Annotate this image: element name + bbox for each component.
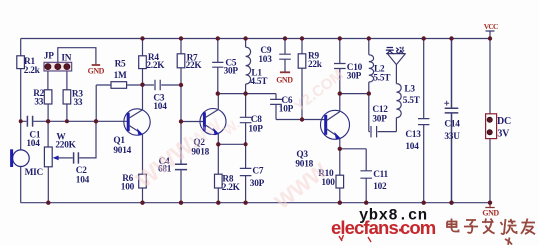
capacitor C12 [369, 126, 397, 137]
transistor Q1 [124, 109, 150, 135]
potentiometer W [44, 147, 52, 167]
svg-text:9014: 9014 [113, 146, 131, 156]
svg-text:22k: 22k [308, 60, 323, 70]
wire R2 bottom to base row [47, 104, 49, 147]
svg-text:33: 33 [74, 98, 83, 108]
capacitor C4 [175, 164, 187, 169]
capacitor C14 electrolytic [445, 39, 459, 203]
svg-text:22K: 22K [186, 61, 203, 71]
svg-text:C7: C7 [252, 166, 263, 176]
transistor Q2 [200, 109, 226, 135]
svg-text:Q3: Q3 [296, 150, 308, 160]
svg-text:R5: R5 [115, 59, 126, 69]
resistor R5 [111, 82, 127, 89]
capacitor C10 [334, 39, 346, 94]
svg-text:MIC: MIC [25, 168, 43, 178]
antenna [387, 54, 406, 65]
svg-text:10P: 10P [248, 124, 263, 134]
svg-text:2.2K: 2.2K [146, 61, 165, 71]
wire Q3 base row [276, 119, 326, 121]
ground bar JP [92, 64, 100, 66]
svg-text:VCC: VCC [484, 22, 498, 31]
svg-text:L3: L3 [404, 84, 415, 94]
svg-text:Y2.COM: Y2.COM [291, 66, 347, 115]
capacitor C5 [212, 39, 223, 94]
svg-text:W.: W. [220, 116, 243, 139]
resistor R2 [44, 90, 52, 104]
capacitor C13 [418, 39, 429, 203]
wire JP pin1 to R2 [47, 67, 49, 90]
wire Q2 base [181, 121, 204, 123]
svg-text:GND: GND [88, 67, 105, 76]
glyph 电 [447, 219, 459, 232]
capacitor C2 [74, 152, 79, 163]
svg-text:10P: 10P [279, 105, 294, 115]
capacitor C11 [360, 149, 372, 203]
svg-text:104: 104 [26, 139, 40, 149]
capacitor C9 [279, 39, 291, 72]
resistor R4 [142, 39, 144, 56]
svg-text:5.5T: 5.5T [373, 73, 391, 83]
resistor R6 [139, 174, 147, 188]
svg-text:100: 100 [121, 183, 135, 193]
svg-text:C14: C14 [444, 119, 460, 129]
svg-text:33: 33 [34, 97, 43, 107]
svg-text:Q1: Q1 [113, 136, 125, 146]
svg-text:IN: IN [61, 53, 71, 63]
svg-text:102: 102 [373, 182, 387, 192]
connector JP/IN [44, 62, 72, 71]
svg-text:104: 104 [153, 102, 167, 112]
svg-text:2.2K: 2.2K [222, 183, 241, 193]
svg-text:C13: C13 [405, 130, 421, 140]
label antenna 天线 [386, 47, 404, 54]
ground bar C9 [280, 71, 290, 73]
watermark marks [339, 235, 371, 242]
svg-text:220K: 220K [55, 140, 76, 150]
svg-text:1M: 1M [114, 71, 127, 81]
svg-text:elecfans.com: elecfans.com [331, 214, 436, 238]
svg-text:104: 104 [76, 175, 90, 185]
svg-text:30P: 30P [224, 66, 239, 76]
pot wiper arrow [58, 157, 73, 159]
wire collector node row [218, 93, 276, 95]
wire Q3 collector [339, 94, 341, 112]
wire Q2 emitter row to C7 [218, 143, 245, 145]
svg-text:2.2k: 2.2k [24, 66, 41, 76]
microphone MIC [13, 150, 30, 167]
wire bottom rail [21, 202, 490, 204]
svg-text:33U: 33U [444, 132, 460, 142]
inductor L1 [246, 39, 251, 94]
svg-text:DC: DC [497, 116, 511, 127]
svg-text:GND: GND [482, 209, 499, 218]
capacitor C3 [143, 80, 182, 90]
wire Q2 collector [217, 94, 219, 109]
wire R3 bottom to base row [66, 104, 68, 121]
watermark 电子发烧友 [447, 219, 535, 245]
wire Q3 emitter row to C11 [340, 148, 366, 150]
wire Q1 collector [142, 85, 144, 110]
svg-text:30P: 30P [372, 114, 387, 124]
resistor R8 [215, 174, 223, 188]
glyph 烧 [501, 219, 517, 234]
capacitor C7 [240, 144, 252, 202]
resistor R9 [301, 39, 303, 54]
VCC stub [486, 31, 495, 39]
svg-text:103: 103 [258, 55, 272, 65]
glyph 友 [505, 219, 535, 245]
glyph 子 [464, 220, 478, 233]
watermark pink diagonal [131, 66, 347, 214]
resistor R3 [63, 90, 71, 104]
svg-text:GND: GND [276, 75, 293, 84]
svg-text:3V: 3V [497, 129, 510, 140]
glyph 发 [482, 219, 495, 234]
connector DC [486, 114, 497, 139]
svg-text:C11: C11 [373, 170, 388, 180]
wire Q3 emitter [339, 139, 341, 149]
capacitor C6 [270, 94, 282, 120]
ground bottom right [485, 203, 494, 208]
inductor L3 [396, 65, 401, 132]
capacitor C1 [27, 116, 32, 127]
svg-text:104: 104 [405, 142, 419, 152]
wire left vertical [20, 39, 22, 203]
svg-text:30P: 30P [347, 71, 362, 81]
resistor R10 [339, 149, 341, 175]
svg-text:5.5T: 5.5T [403, 96, 421, 106]
wire Q3 collector row to L2 [340, 93, 369, 95]
wire base row with C1 [21, 120, 128, 122]
svg-text:JP: JP [44, 51, 54, 61]
wire Q2 emitter to R8 [217, 134, 219, 174]
wire top rail [21, 38, 490, 40]
capacitor C8 [240, 94, 252, 145]
resistor R7 [180, 39, 182, 54]
inductor L2 [369, 39, 374, 132]
wire Q1 emitter [142, 134, 144, 174]
resistor R1 [17, 56, 25, 69]
svg-text:30P: 30P [250, 179, 265, 189]
svg-text:4.5T: 4.5T [250, 77, 268, 87]
wire right VCC vertical [489, 39, 491, 203]
wire JP pin2 to GND [58, 48, 96, 64]
transistor Q3 [321, 110, 350, 139]
wire JP pin3 to R3 [66, 67, 68, 90]
